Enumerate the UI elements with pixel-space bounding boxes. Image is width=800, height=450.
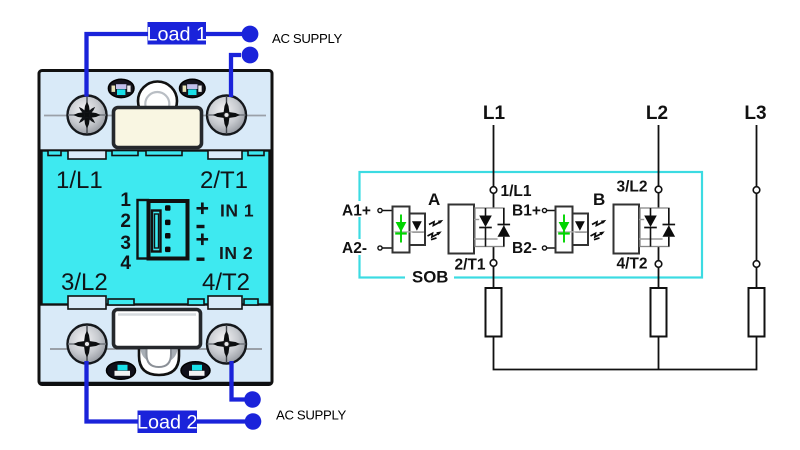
svg-text:4/T2: 4/T2 bbox=[617, 256, 648, 273]
svg-text:Load 2: Load 2 bbox=[137, 412, 198, 434]
svg-text:B: B bbox=[593, 190, 605, 209]
svg-text:AC SUPPLY: AC SUPPLY bbox=[272, 31, 342, 46]
svg-text:A2-: A2- bbox=[342, 240, 367, 257]
svg-text:IN 1: IN 1 bbox=[220, 201, 254, 221]
svg-text:L1: L1 bbox=[483, 103, 506, 124]
svg-text:SOB: SOB bbox=[412, 268, 448, 287]
svg-text:B1+: B1+ bbox=[512, 203, 541, 220]
svg-text:Load 1: Load 1 bbox=[146, 24, 207, 46]
svg-text:1: 1 bbox=[120, 190, 131, 211]
svg-text:1/L1: 1/L1 bbox=[56, 167, 103, 194]
svg-text:2/T1: 2/T1 bbox=[200, 167, 248, 194]
svg-text:A1+: A1+ bbox=[342, 203, 371, 220]
svg-text:2/T1: 2/T1 bbox=[455, 257, 486, 274]
svg-text:L2: L2 bbox=[646, 103, 668, 124]
svg-text:L3: L3 bbox=[744, 103, 766, 124]
svg-text:2: 2 bbox=[120, 211, 131, 232]
svg-text:3/L2: 3/L2 bbox=[61, 269, 108, 296]
svg-text:3: 3 bbox=[120, 233, 131, 254]
svg-text:A: A bbox=[428, 190, 440, 209]
svg-text:4: 4 bbox=[120, 253, 131, 274]
svg-text:AC SUPPLY: AC SUPPLY bbox=[276, 407, 346, 422]
svg-text:IN 2: IN 2 bbox=[219, 243, 253, 263]
svg-text:B2-: B2- bbox=[512, 240, 537, 257]
svg-text:1/L1: 1/L1 bbox=[501, 183, 532, 200]
svg-text:3/L2: 3/L2 bbox=[617, 179, 648, 196]
svg-text:4/T2: 4/T2 bbox=[202, 269, 250, 296]
